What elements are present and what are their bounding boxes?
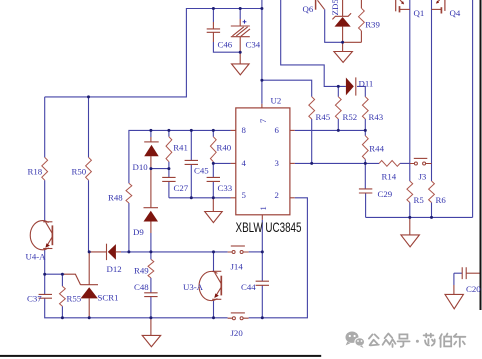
resistor R43 <box>362 97 368 119</box>
diode D9 <box>144 208 159 222</box>
svg-text:C27: C27 <box>174 183 189 193</box>
resistor R44 <box>362 136 368 160</box>
svg-text:R55: R55 <box>67 294 82 304</box>
wire C45 top lead <box>190 130 192 160</box>
svg-text:ZD5: ZD5 <box>330 0 340 15</box>
svg-text:8: 8 <box>242 125 247 135</box>
svg-text:J20: J20 <box>231 328 244 338</box>
ground under C20 <box>445 294 463 308</box>
capacitor C33 <box>207 177 220 181</box>
svg-text:R45: R45 <box>316 112 331 122</box>
svg-text:R40: R40 <box>217 143 232 153</box>
svg-text:D11: D11 <box>359 79 374 89</box>
resistor R48 <box>126 183 132 203</box>
wire D9 bottom lead <box>150 222 152 234</box>
wire D10 cathode stub <box>150 137 152 142</box>
svg-text:C46: C46 <box>218 39 233 49</box>
wire R49 to C48 <box>150 278 152 293</box>
svg-text:1: 1 <box>258 206 268 210</box>
svg-text:5: 5 <box>242 190 247 200</box>
watermark glyph hao <box>398 334 410 346</box>
ground bottom rail <box>142 335 161 346</box>
wire ground lead under R5 <box>409 217 411 235</box>
svg-text:R18: R18 <box>28 167 43 177</box>
svg-text:R52: R52 <box>343 112 358 122</box>
wire Q4 column to R6 <box>431 0 433 181</box>
black border bottom <box>0 355 321 357</box>
svg-text:R44: R44 <box>369 144 384 154</box>
wire R14 to J3 <box>400 162 410 164</box>
resistor R14 <box>379 161 400 167</box>
wire R49 top lead <box>150 252 152 259</box>
connector J20 <box>228 313 249 320</box>
U2 pin stub 5 <box>231 197 236 199</box>
wire D9 lead to J14 rail <box>150 233 152 252</box>
wire R55 top lead <box>61 274 63 286</box>
wire C37 top lead <box>44 274 46 294</box>
svg-text:R49: R49 <box>134 266 149 276</box>
svg-text:U2: U2 <box>271 96 282 106</box>
wire right vertical rail <box>472 0 474 217</box>
ground under R5 <box>401 235 420 247</box>
wire D10 anode to D9 <box>150 156 152 208</box>
wire R39 top lead <box>360 0 362 8</box>
connector J14 <box>228 246 249 254</box>
svg-text:R43: R43 <box>369 112 384 122</box>
wire U2 pin4 rail <box>213 162 230 164</box>
wire R39 bottom lead <box>360 31 362 43</box>
diode D10 <box>144 142 159 156</box>
wire R40 top lead <box>212 130 214 136</box>
wire SCR1 cathode rail to D12 <box>89 251 106 253</box>
diode D12 <box>107 244 116 260</box>
watermark wechat icon <box>346 332 365 349</box>
ground under ZD5 <box>334 52 353 63</box>
wire C29 bottom lead <box>365 193 367 217</box>
watermark glyph bo <box>440 334 452 347</box>
wire R45 bottom to pin3 rail <box>311 119 313 163</box>
resistor R41 <box>166 137 172 162</box>
transistor U3-A <box>199 271 221 300</box>
resistor R52 <box>335 97 341 119</box>
wire ground lead under C20 <box>453 273 455 285</box>
resistor R6 <box>429 181 435 203</box>
svg-text:C45: C45 <box>194 166 209 176</box>
wire U4-A emitter down <box>44 249 46 275</box>
wire node to R55 <box>45 273 65 275</box>
wire C33 bottom lead <box>212 181 214 197</box>
wire Q1 source column to R5 <box>409 0 411 181</box>
svg-text:U4-A: U4-A <box>26 252 47 262</box>
ground under C34 <box>232 64 250 75</box>
wire U2 pin5 rail <box>169 197 231 199</box>
wire R18 to U4-A collector <box>44 180 46 221</box>
thyristor SCR1 <box>80 285 98 299</box>
wire C27 bottom lead <box>168 181 170 197</box>
wire R41 top lead <box>168 130 170 136</box>
wire C46 top lead <box>212 9 214 23</box>
U2 pin stub 7 <box>261 104 263 108</box>
svg-text:R48: R48 <box>108 193 123 203</box>
wire J14 rail <box>121 251 228 253</box>
svg-text:C34: C34 <box>246 39 261 49</box>
svg-text:D9: D9 <box>133 227 144 237</box>
watermark glyph le <box>454 334 466 347</box>
transistor Q6 partial <box>316 0 325 10</box>
svg-text:C48: C48 <box>134 282 149 292</box>
capacitor C27 <box>162 177 175 181</box>
wire D10 node to R41/C27 node <box>151 168 169 170</box>
svg-text:R50: R50 <box>72 167 87 177</box>
transistor Q4 partial <box>432 0 445 14</box>
diode D11 <box>346 77 356 95</box>
wire C37 to bottom rail <box>45 298 228 318</box>
svg-text:Q4: Q4 <box>450 8 461 18</box>
svg-text:R5: R5 <box>414 195 425 205</box>
svg-text:U3-A: U3-A <box>183 282 204 292</box>
capacitor C37 <box>39 294 52 298</box>
wire U3-A collector lead <box>213 252 215 272</box>
wire R6 bottom lead <box>431 203 433 218</box>
resistor R39 <box>359 8 365 31</box>
wire R50 to D12 node <box>88 180 90 252</box>
wire ground lead under C33 <box>212 198 214 212</box>
wire C44 bottom lead <box>261 285 263 318</box>
transistor Q1 partial <box>396 0 410 12</box>
wire C46 bottom L to C34 <box>212 32 214 42</box>
U2 pin stub 4 <box>231 162 236 164</box>
wire right ground rail <box>366 216 473 218</box>
svg-text:Q6: Q6 <box>303 4 314 14</box>
zener diode ZD5 <box>332 13 351 26</box>
wire C34 bottom lead to ground <box>239 37 241 64</box>
watermark glyph xin <box>424 334 435 346</box>
wire D10 top lead <box>150 130 152 137</box>
op-amp U2 box UC3845 <box>236 108 290 215</box>
capacitor C34 electrolytic <box>231 26 250 37</box>
capacitor C29 <box>359 189 372 193</box>
wire R50 top lead <box>88 97 90 157</box>
wire U2 pin6 rail <box>295 129 366 131</box>
wire R18 top lead <box>44 97 46 157</box>
wire SCR1 gate feed <box>64 274 81 285</box>
svg-text:Q1: Q1 <box>414 8 425 18</box>
wire C34 top lead <box>239 9 241 20</box>
U2 pin stub 6 <box>290 129 295 131</box>
wire Q6 emitter lead <box>324 9 326 42</box>
wire zener rail right <box>343 41 361 43</box>
wire U2 pin1 lead down <box>261 220 263 252</box>
wire VCC vertical to U2 pin7 <box>261 0 263 104</box>
svg-text:D12: D12 <box>107 264 122 274</box>
U2 pin stub 3 <box>290 162 295 164</box>
resistor R5 <box>407 181 413 203</box>
wire C48 bottom lead <box>150 297 152 318</box>
svg-text:4: 4 <box>242 158 247 168</box>
resistor R49 <box>148 259 154 278</box>
resistor R55 <box>60 286 66 306</box>
capacitor C45 <box>185 160 198 164</box>
capacitor C46 <box>207 29 220 32</box>
ground under C33 <box>205 212 223 223</box>
wire ground lead under ZD5 <box>342 42 344 51</box>
wire zener rail left <box>324 41 343 43</box>
svg-text:C29: C29 <box>378 189 393 199</box>
transistor U4-A <box>30 221 52 250</box>
U2 pin stub 1 <box>261 215 263 220</box>
wire SCR1 top lead <box>88 252 90 285</box>
C34 plus sign <box>243 20 247 24</box>
U2 pin stub 2 <box>290 197 295 199</box>
resistor R18 <box>42 157 48 180</box>
svg-text:J3: J3 <box>419 172 427 182</box>
wire SCR1 bottom lead <box>88 298 90 317</box>
svg-text:J14: J14 <box>231 262 244 272</box>
wire D12 anode to J14 rail <box>116 251 121 253</box>
svg-text:D10: D10 <box>133 162 149 172</box>
wire J14 to pin1 node <box>249 251 263 253</box>
wire D11 cathode to R43 <box>357 86 365 96</box>
resistor R40 <box>210 137 216 162</box>
wire R52 bottom lead <box>337 119 339 130</box>
svg-text:6: 6 <box>275 125 280 135</box>
resistor R50 <box>86 157 92 180</box>
wire bottom rail right to U2 pin2 <box>249 198 308 318</box>
watermark middle dot <box>416 340 419 343</box>
wire C20 right lead <box>466 272 479 274</box>
wire top rail to C46/C34 <box>45 9 262 97</box>
resistor R45 <box>309 97 315 119</box>
wire C20 left lead <box>454 272 462 274</box>
svg-text:3: 3 <box>275 158 280 168</box>
svg-text:7: 7 <box>258 118 268 123</box>
svg-text:R14: R14 <box>382 172 397 182</box>
U2 pin stub 8 <box>231 129 236 131</box>
svg-text:R39: R39 <box>365 20 380 30</box>
wire R55 bottom lead <box>61 306 63 318</box>
wire R40 to C33 through pin4 node <box>212 162 214 178</box>
watermark glyph gong <box>369 334 379 345</box>
wire R43 to R44 <box>364 119 366 136</box>
wire R48 bottom lead <box>128 203 130 252</box>
svg-text:2: 2 <box>275 190 279 200</box>
wire C45 bottom lead <box>190 164 192 197</box>
wire VCC branch to R45 <box>262 80 312 97</box>
wire U2 pin3 rail to R14 <box>295 162 379 164</box>
wire U3-A emitter lead <box>213 301 215 318</box>
capacitor C20 <box>462 267 466 279</box>
svg-text:C37: C37 <box>27 294 42 304</box>
wire R41 to C27 <box>168 162 170 178</box>
svg-text:XBLW UC3845: XBLW UC3845 <box>236 220 302 235</box>
wire R52 top lead <box>337 86 339 96</box>
watermark glyph zhong <box>383 334 396 347</box>
wire R44 bottom to C29 top <box>364 159 366 189</box>
svg-text:R6: R6 <box>436 195 447 205</box>
wire top-left feed to D11 <box>281 0 346 86</box>
svg-text:SCR1: SCR1 <box>98 293 119 303</box>
wire R5 bottom lead <box>409 203 411 218</box>
wire ZD5 bottom lead <box>342 27 344 43</box>
wire ZD5 top lead <box>342 0 344 16</box>
wire C44 top lead <box>261 252 263 281</box>
wire U2 pin8 rail down to R48 <box>129 130 231 183</box>
svg-text:R41: R41 <box>173 143 188 153</box>
svg-text:C20: C20 <box>466 284 481 294</box>
capacitor C44 <box>256 281 269 285</box>
svg-text:C33: C33 <box>218 183 233 193</box>
svg-text:C44: C44 <box>241 282 256 292</box>
black border right <box>480 0 482 310</box>
connector J3 <box>410 158 432 165</box>
wire ground lead bottom rail <box>150 318 152 336</box>
capacitor C48 <box>144 293 157 297</box>
